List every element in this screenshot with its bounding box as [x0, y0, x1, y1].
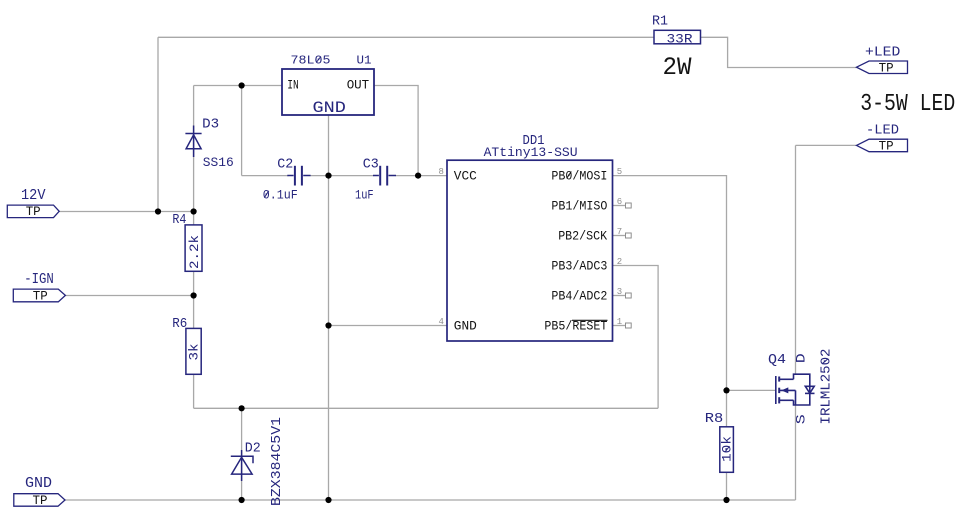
svg-text:12V: 12V [21, 187, 46, 204]
svg-text:8: 8 [439, 167, 444, 177]
svg-text:2W: 2W [663, 53, 692, 82]
svg-text:TP: TP [33, 494, 48, 508]
svg-text:TP: TP [26, 205, 41, 219]
svg-text:SS16: SS16 [203, 155, 234, 170]
svg-text:7: 7 [617, 227, 622, 237]
svg-text:3k: 3k [188, 344, 202, 361]
svg-text:-LED: -LED [866, 123, 899, 139]
svg-text:3-5W LED: 3-5W LED [860, 91, 955, 118]
svg-text:R1: R1 [652, 15, 668, 30]
svg-text:C3: C3 [363, 158, 379, 173]
svg-text:VCC: VCC [454, 170, 477, 184]
svg-text:D2: D2 [245, 442, 261, 457]
svg-text:PB3/ADC3: PB3/ADC3 [551, 260, 607, 274]
svg-text:D: D [793, 353, 808, 363]
svg-text:1: 1 [617, 317, 622, 327]
svg-text:TP: TP [879, 62, 894, 76]
svg-text:PB2/SCK: PB2/SCK [558, 230, 607, 244]
svg-text:OUT: OUT [347, 79, 370, 93]
svg-text:GND: GND [313, 99, 346, 117]
svg-text:5: 5 [617, 167, 622, 177]
svg-text:+LED: +LED [865, 44, 900, 60]
svg-text:IN: IN [287, 79, 299, 93]
svg-text:-IGN: -IGN [24, 271, 54, 288]
svg-text:1uF: 1uF [355, 189, 374, 203]
svg-text:Q4: Q4 [768, 352, 786, 368]
svg-text:33R: 33R [667, 31, 693, 46]
svg-text:R8: R8 [705, 412, 724, 427]
svg-text:PB5/RESET: PB5/RESET [544, 320, 607, 334]
svg-text:TP: TP [33, 290, 48, 304]
svg-text:R6: R6 [172, 317, 187, 332]
svg-text:6: 6 [617, 197, 622, 207]
svg-text:ATtiny13-SSU: ATtiny13-SSU [484, 145, 578, 160]
svg-text:C2: C2 [277, 158, 293, 173]
svg-text:TP: TP [879, 140, 894, 154]
svg-text:S: S [793, 414, 808, 424]
svg-text:2.2k: 2.2k [188, 235, 202, 269]
svg-text:D3: D3 [202, 118, 219, 133]
svg-text:78L05: 78L05 [291, 55, 331, 68]
svg-text:2: 2 [617, 257, 622, 267]
svg-text:3: 3 [617, 287, 622, 297]
svg-text:BZX384C5V1: BZX384C5V1 [269, 417, 285, 506]
svg-text:GND: GND [25, 475, 52, 492]
svg-text:PB1/MISO: PB1/MISO [551, 200, 607, 214]
svg-text:GND: GND [454, 320, 477, 334]
svg-text:PB0/MOSI: PB0/MOSI [551, 170, 607, 184]
svg-text:PB4/ADC2: PB4/ADC2 [551, 290, 607, 304]
svg-text:4: 4 [439, 317, 444, 327]
svg-text:U1: U1 [357, 55, 372, 68]
svg-text:0.1uF: 0.1uF [263, 188, 298, 202]
svg-text:R4: R4 [172, 213, 186, 228]
